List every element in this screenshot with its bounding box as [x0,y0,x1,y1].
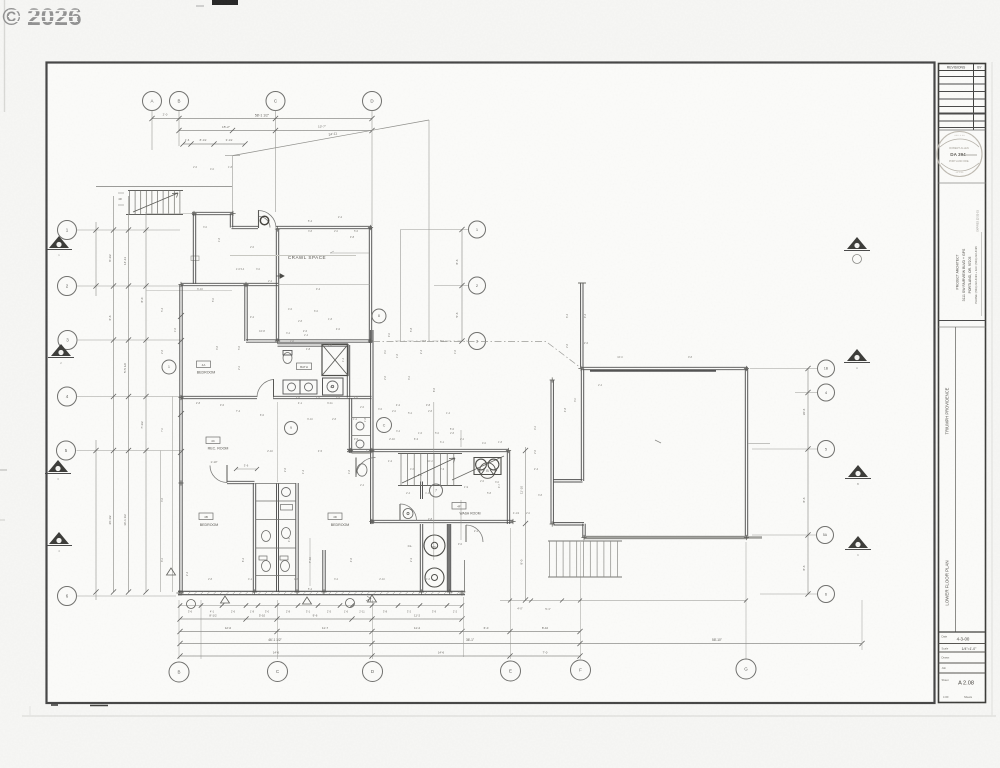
bedroom door swing [257,380,274,398]
stair door leaf [355,458,357,478]
junction ticks [191,211,196,216]
lot dash line [373,342,581,369]
washroom west wall [371,398,373,524]
left grid bubble 1 [58,221,77,240]
lower wall x324 [323,550,325,592]
extension x463 [463,597,465,657]
extension line at C2 [232,156,234,214]
washroom door swing [400,504,417,520]
right grid bubble 1B [818,360,835,377]
bottom dim row 2 [180,618,462,620]
left grid bubble 5 [57,441,76,460]
right connectors [750,368,817,370]
left section marker 1 [49,236,69,248]
wall D lower [371,330,373,398]
left section marker 2 [51,344,71,356]
grid bubble B [170,92,189,111]
roof diagonal line [233,120,429,156]
room label bedroom3 [328,513,342,520]
title mid divider [955,327,957,632]
bedroom door leaf [273,379,275,398]
garage stub wall upper [581,283,583,369]
grid bubble D [363,92,382,111]
project info box lines [939,320,986,322]
grid C extension mid [277,402,279,482]
right section marker 4 [848,536,868,548]
left dim ticks [111,227,116,232]
ext line left of top wall [146,213,191,215]
grid leader C [275,111,277,213]
breezeway wall [551,380,553,524]
left grid bubble 3 [58,331,77,350]
left dimension line a [95,222,97,296]
rec room door swing [210,466,227,483]
sheet scale marks [51,704,58,706]
washroom door leaf [399,504,401,521]
left grid bubble 4 [58,387,77,406]
washroom north wall [347,449,509,451]
washroom diagonal [452,456,504,480]
left section marker 4 [49,532,69,544]
title block divider under stamp [939,182,986,184]
paper edge shadows [4,0,6,112]
garage east stub line [748,443,770,445]
sheet border [47,63,935,704]
garage left wall [581,369,583,482]
right section marker 2 [847,349,867,361]
extension x862 [861,600,863,650]
south wall hatch [181,591,466,594]
crawl space right wall [369,228,371,344]
room label bedroom1 [197,361,211,368]
left dimension line b [113,196,115,592]
right section marker 3 [848,465,868,477]
washer circle [425,568,444,587]
mid band leader line [146,290,232,292]
garage top wall header [590,370,716,372]
rec room dim [236,468,257,470]
right grid bubble 5 [818,441,835,458]
washroom south wall [370,520,513,522]
grid leader B [178,111,180,147]
lower band divider x297 [296,483,298,592]
misc leader marks [330,252,369,254]
right grid bubble 5A [817,527,834,544]
upper room left wall [193,214,195,285]
house south wall [178,591,465,594]
entry wall west of door [232,226,259,228]
revisions header [939,70,986,72]
garage notch stub upper [554,480,583,482]
left inner extension lines [160,451,162,593]
mid grid connector 2 [434,285,468,287]
hall bubble C2 [377,418,392,433]
grid bubble G bottom [736,659,756,679]
mid grid bubble 2 [469,277,486,294]
garage notch stub lower [554,523,585,525]
bath toilet [283,353,292,364]
bath label box [297,363,312,370]
top dimension row 1 [152,118,372,120]
bottom dim ticks row [180,605,462,607]
left section marker 3 [48,460,68,472]
crawl space left wall [276,229,278,341]
bottom dim row 5 [180,655,580,657]
lower bath cells [256,483,296,485]
garage top wall [581,367,748,369]
bottom dim row 3 [180,631,580,633]
crawl space bottom wall [278,340,371,342]
vertical dim line x525 [525,447,527,600]
washroom label [452,503,466,510]
revision table rows [939,76,986,78]
garage south wall [584,536,747,538]
extension line at D2 [428,120,430,341]
scan artifact top [212,0,238,5]
top dimension row 3 [183,143,245,145]
closet door swing [466,525,483,542]
mid grid bubble 1 [469,221,486,238]
grid leader D [371,111,373,227]
garage left wall lower [583,524,585,538]
grid bubble A [143,92,162,111]
grid bubble E bottom [501,661,521,681]
bubble on wall D [372,309,386,323]
right section marker 1 [847,237,867,249]
laundry sink fixture [474,458,501,475]
interior bubble hall2 [285,422,298,435]
upper room step wall [230,214,232,228]
exterior steps [548,540,622,542]
grid bubble C [266,92,285,111]
bath tub xbox [322,345,348,376]
mid grid connector 3 [395,340,468,342]
bath block center divider [277,483,279,592]
stair door swing [356,458,376,478]
lower band divider x254 [253,483,255,592]
room label rec room [206,437,220,444]
room divider wall x246 [245,285,247,342]
upper room top wall [192,212,233,214]
garage right wall [745,369,747,540]
left dimension line c [128,196,130,592]
bath north wall [278,344,349,346]
grid bubble F bottom [571,660,591,680]
room label bedroom2 [199,513,213,520]
house left wall [180,285,182,594]
wall tag upper left [191,256,199,261]
water heater [424,535,445,556]
grid bubble D bottom [363,662,383,682]
bath shower square [323,378,344,395]
crawl space top wall [276,226,372,228]
left grid bubble 2 [58,277,77,296]
left grid bubble 6 [58,587,77,606]
mid grid bubble 3 [469,333,486,350]
washroom ext line x461 [460,430,462,447]
powder toilet [357,464,367,476]
powder fixtures [356,422,364,430]
east wall lower [447,524,449,592]
entry door leaf [258,210,260,228]
left wall window marks [178,411,184,417]
interior bubble left [162,360,176,374]
top dimension row 2 [179,130,372,132]
garage mid mark [655,440,661,443]
rec room south wall [227,481,255,483]
washroom east wall [507,451,509,525]
closet walls [420,524,422,592]
powder room shelves [352,417,371,419]
washroom ext line x434 [433,402,435,560]
entry stair top line [96,186,232,188]
mid band north wall [181,283,278,285]
wall y341 west segment [246,340,278,342]
washroom door circle [403,509,413,519]
hall bubble near stairs [430,484,443,497]
washroom bubble [487,473,489,475]
bath fixtures sink counter [283,380,300,394]
bottom extension lines [178,600,180,659]
bottom dim row 4 [180,643,862,645]
right grid bubble 4 [818,384,835,401]
left margin artifact [0,469,7,471]
right dim line [807,369,809,595]
entry door inner arc [259,217,270,228]
corridor wall [181,396,257,398]
title bottom box [939,631,986,633]
entry stairs [128,190,183,192]
crawl space pencil line [230,255,356,257]
right grid bubble 6 [818,586,835,603]
revision deltas [221,596,230,603]
mid grid extension box [400,230,402,342]
bottom small dims right [500,600,746,602]
upper room arrow [276,274,284,278]
garage south wall shadow [584,536,762,538]
washroom stub wall [421,482,423,500]
grid bubble C bottom [268,662,288,682]
basement stairs [398,453,462,455]
title block frame [939,64,986,703]
mid grid connector 1 [401,229,469,231]
left dimension line d [145,212,147,592]
grid leader A [151,111,153,151]
stamp seal [937,132,982,177]
left grid leaders [77,229,181,231]
powder room west wall [349,398,351,453]
entry door swing [259,211,277,228]
door number circles [187,600,196,609]
grid bubble B bottom [169,662,189,682]
bath east wall [347,345,349,398]
